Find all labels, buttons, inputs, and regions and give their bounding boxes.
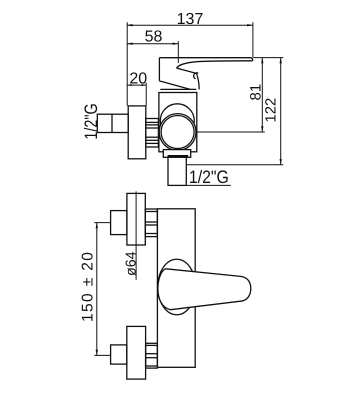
- svg-text:20: 20: [129, 70, 147, 87]
- svg-text:58: 58: [145, 29, 163, 46]
- svg-text:137: 137: [177, 11, 204, 28]
- svg-text:150 ± 20: 150 ± 20: [80, 252, 97, 322]
- svg-text:1/2"G: 1/2"G: [189, 167, 229, 187]
- svg-text:1/2"G: 1/2"G: [81, 103, 101, 139]
- svg-text:ø64: ø64: [123, 251, 139, 276]
- svg-text:122: 122: [263, 98, 279, 123]
- svg-text:81: 81: [248, 84, 265, 101]
